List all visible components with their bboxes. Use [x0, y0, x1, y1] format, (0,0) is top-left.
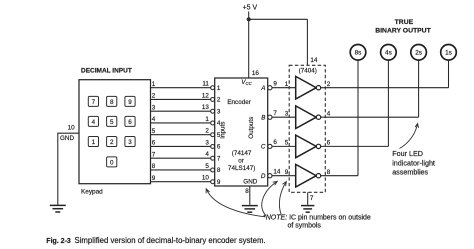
wire keypad common to ground	[58, 133, 79, 205]
encoder U1 74147 box	[215, 78, 268, 186]
wire keypad line 2 to encoder	[151, 98, 211, 100]
svg-text:Fig. 2-3: Fig. 2-3	[46, 238, 71, 245]
svg-text:3: 3	[285, 110, 289, 117]
bubble output B (active low)	[268, 115, 272, 119]
wire inverter B output to indicator	[321, 116, 419, 118]
svg-text:C: C	[261, 144, 266, 151]
inverter U2d	[296, 164, 317, 187]
IC U2 7404 dashed outline	[289, 65, 325, 192]
wire keypad line 8 to encoder	[151, 169, 211, 171]
wire indicator stem D	[357, 60, 359, 175]
svg-text:8s: 8s	[355, 50, 362, 57]
svg-text:2s: 2s	[415, 50, 422, 57]
wire 74147 GND pin to ground	[249, 186, 251, 205]
svg-text:4: 4	[327, 110, 331, 117]
key 3	[125, 137, 135, 147]
svg-text:2: 2	[217, 97, 221, 104]
svg-text:5: 5	[285, 140, 289, 147]
arrow note to pin 14	[262, 181, 277, 215]
wire +5V drop to 7404 pin 14	[306, 19, 308, 65]
bubble inverter B output	[316, 115, 320, 119]
key 0	[107, 157, 117, 167]
bubble input 8	[211, 168, 215, 172]
key 1	[88, 137, 98, 147]
wire keypad line 7 to encoder	[151, 157, 211, 159]
svg-text:Four LED: Four LED	[392, 149, 423, 158]
inverter U2b	[296, 106, 317, 129]
key 8	[107, 96, 117, 106]
svg-text:B: B	[261, 115, 265, 122]
svg-text:assemblies: assemblies	[392, 168, 428, 177]
arrow note to pin 10	[206, 189, 265, 217]
svg-text:14: 14	[273, 169, 281, 176]
svg-text:6: 6	[152, 140, 156, 147]
wire inverter A output to indicator	[321, 87, 449, 89]
bubble input 6	[211, 145, 215, 149]
svg-text:10: 10	[202, 175, 210, 182]
svg-text:4: 4	[92, 119, 96, 126]
svg-text:A: A	[260, 85, 265, 92]
svg-text:*NOTE: IC pin numbers on outsi: *NOTE: IC pin numbers on outside	[263, 214, 371, 221]
bubble input 4	[211, 121, 215, 125]
svg-text:8: 8	[217, 167, 221, 174]
wire keypad line 5 to encoder	[151, 134, 211, 136]
svg-text:(74147: (74147	[232, 150, 252, 157]
wire inverter C output to indicator	[321, 145, 389, 147]
svg-text:5: 5	[110, 119, 114, 126]
arrow note to pin 9	[279, 182, 286, 215]
ground (7404)	[301, 206, 314, 213]
svg-text:2: 2	[152, 93, 156, 100]
wire output B to inverter	[272, 116, 296, 118]
svg-text:9: 9	[273, 81, 277, 88]
bubble input 9	[211, 180, 215, 184]
bubble output D (active low)	[268, 174, 272, 178]
svg-text:Encoder: Encoder	[227, 99, 250, 106]
inverter U2a	[296, 76, 317, 99]
ground (keypad)	[50, 205, 66, 212]
svg-text:D: D	[261, 173, 266, 180]
svg-text:8: 8	[152, 163, 156, 170]
svg-text:Outputs: Outputs	[248, 117, 255, 139]
bubble output A (active low)	[268, 86, 272, 90]
wire indicator stem A	[448, 60, 450, 87]
svg-text:DECIMAL INPUT: DECIMAL INPUT	[81, 67, 132, 74]
svg-text:3: 3	[128, 139, 132, 146]
svg-text:3: 3	[217, 108, 221, 115]
wire 7404 GND pin to ground	[307, 192, 309, 205]
key 4	[88, 116, 98, 126]
svg-text:12: 12	[202, 92, 210, 99]
svg-text:4s: 4s	[385, 50, 392, 57]
bubble input 2	[211, 98, 215, 102]
wire +5V horizontal branch	[249, 18, 308, 20]
svg-text:5: 5	[205, 163, 209, 170]
svg-text:2: 2	[327, 81, 331, 88]
svg-text:or: or	[238, 158, 244, 165]
svg-text:TRUE: TRUE	[395, 19, 414, 26]
svg-text:6: 6	[273, 139, 277, 146]
svg-text:14: 14	[310, 57, 318, 64]
svg-text:7: 7	[310, 195, 314, 202]
keypad box	[79, 80, 151, 184]
svg-text:GND: GND	[60, 135, 74, 142]
bubble output C (active low)	[268, 144, 272, 148]
svg-text:6: 6	[128, 119, 132, 126]
wire +5V vertical to encoder pin 16	[248, 12, 250, 79]
svg-text:8: 8	[327, 169, 331, 176]
svg-text:Keypad: Keypad	[81, 188, 103, 195]
svg-text:6: 6	[327, 140, 331, 147]
svg-text:3: 3	[205, 139, 209, 146]
svg-text:1: 1	[205, 116, 209, 123]
svg-text:5: 5	[152, 128, 156, 135]
svg-text:BINARY OUTPUT: BINARY OUTPUT	[375, 27, 431, 34]
wire keypad line 1 to encoder	[151, 87, 211, 89]
svg-text:1: 1	[285, 81, 289, 88]
bubble inverter D output	[316, 174, 320, 178]
svg-text:11: 11	[202, 81, 209, 88]
bubble input 5	[211, 133, 215, 137]
junction +5V node	[247, 17, 251, 21]
key 6	[125, 116, 135, 126]
bubble inverter C output	[316, 144, 320, 148]
svg-text:13: 13	[202, 104, 210, 111]
wire keypad line 9 to encoder	[151, 181, 211, 183]
wire indicator stem C	[387, 60, 389, 146]
LED indicator 2s	[411, 45, 427, 61]
svg-text:Simplified version of decimal-: Simplified version of decimal-to-binary …	[75, 236, 266, 245]
bubble input 7	[211, 156, 215, 160]
svg-text:16: 16	[252, 70, 260, 77]
svg-text:1s: 1s	[445, 50, 452, 57]
svg-text:2: 2	[110, 139, 114, 146]
wire keypad line 3 to encoder	[151, 110, 211, 112]
wire keypad line 6 to encoder	[151, 145, 211, 147]
wire indicator stem B	[418, 60, 420, 117]
svg-text:indicator-light: indicator-light	[392, 158, 435, 167]
key 7	[88, 96, 98, 106]
svg-text:8: 8	[110, 99, 114, 106]
svg-text:6: 6	[217, 144, 221, 151]
svg-text:4: 4	[152, 116, 156, 123]
svg-text:0: 0	[110, 159, 114, 166]
wire output D to inverter	[272, 175, 296, 177]
svg-text:7: 7	[152, 151, 156, 158]
svg-text:1: 1	[152, 81, 156, 88]
bubble inverter A output	[316, 86, 320, 90]
LED indicator 1s	[441, 45, 457, 61]
svg-text:9: 9	[285, 169, 289, 176]
wire keypad line 4 to encoder	[151, 122, 211, 124]
svg-text:1: 1	[217, 85, 221, 92]
key 5	[107, 116, 117, 126]
bubble input 3	[211, 109, 215, 113]
svg-text:4: 4	[205, 151, 209, 158]
svg-text:8: 8	[245, 188, 249, 195]
arrow annotation to 2s stem	[400, 124, 418, 149]
svg-text:GND: GND	[243, 178, 257, 185]
svg-text:+5 V: +5 V	[243, 5, 258, 12]
key 2	[107, 137, 117, 147]
wire inverter D output to indicator	[321, 175, 358, 177]
svg-text:2: 2	[205, 128, 209, 135]
bubble input 1	[211, 86, 215, 90]
wire output C to inverter	[272, 145, 296, 147]
svg-text:9: 9	[128, 99, 132, 106]
svg-text:3: 3	[152, 104, 156, 111]
ground (74147)	[242, 206, 258, 213]
LED indicator 4s	[381, 45, 397, 61]
svg-text:9: 9	[152, 175, 156, 182]
svg-text:9: 9	[217, 179, 221, 186]
svg-text:Inputs: Inputs	[220, 122, 227, 139]
inverter U2c	[296, 135, 317, 158]
svg-text:10: 10	[68, 125, 76, 132]
svg-text:1: 1	[92, 139, 96, 146]
svg-text:74LS147): 74LS147)	[228, 165, 255, 172]
svg-text:of symbols: of symbols	[287, 222, 321, 229]
key 9	[125, 96, 135, 106]
svg-text:7: 7	[217, 155, 221, 162]
svg-text:7: 7	[273, 110, 277, 117]
svg-text:7: 7	[92, 99, 96, 106]
LED indicator 8s	[350, 45, 366, 61]
wire output A to inverter	[272, 87, 296, 89]
svg-text:(7404): (7404)	[299, 68, 317, 75]
